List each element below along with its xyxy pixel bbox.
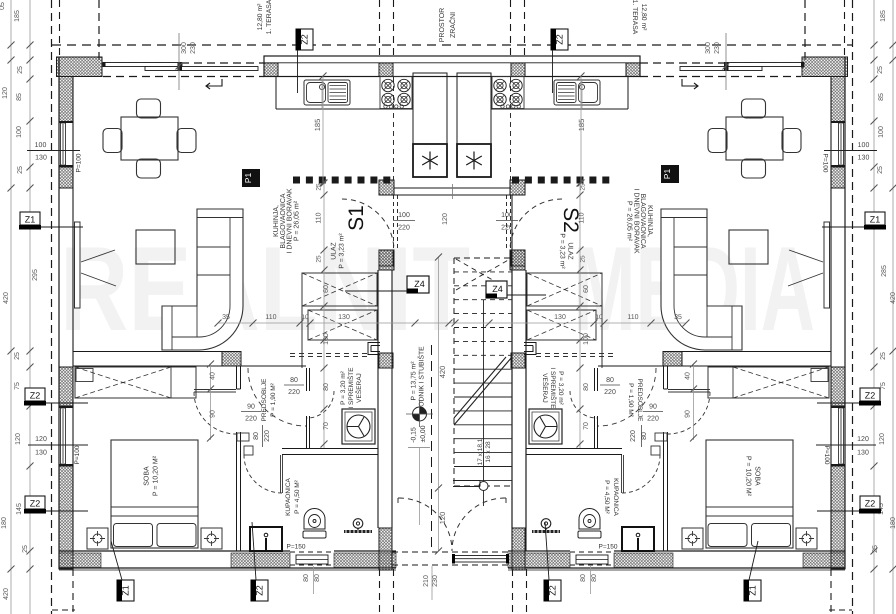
svg-text:10: 10: [595, 314, 603, 321]
svg-text:35: 35: [674, 314, 682, 321]
bathroom north wall S1: [282, 448, 378, 450]
svg-text:25: 25: [316, 255, 323, 263]
svg-text:220: 220: [630, 430, 637, 442]
laundry wall right: [511, 270, 513, 528]
svg-text:Z2: Z2: [30, 391, 41, 401]
svg-text:110: 110: [265, 314, 276, 321]
svg-text:100: 100: [501, 212, 513, 219]
dim 120 corridor: [438, 488, 440, 551]
label Z2 bottom right: [544, 580, 561, 601]
window left living P=100: [59, 121, 73, 123]
svg-text:P = 1,90 M²: P = 1,90 M²: [270, 382, 277, 416]
wall left plain section: [59, 367, 73, 406]
svg-text:Z1: Z1: [870, 215, 881, 225]
predsoblje wall S1: [306, 368, 308, 391]
stair steps: [454, 271, 512, 273]
toilet S1: [304, 509, 325, 529]
svg-text:420: 420: [438, 366, 447, 379]
svg-text:SOBA: SOBA: [144, 466, 151, 486]
entrance door swing S2: [452, 498, 505, 551]
bedroom top wall S1: [73, 351, 241, 353]
hall door swing S2: [598, 368, 656, 426]
wall pier: [264, 63, 278, 77]
svg-text:25: 25: [880, 352, 887, 360]
kitchen tall cabinet and fridge run left: [413, 73, 447, 177]
svg-text:90: 90: [247, 404, 255, 411]
kitchen tall cabinet and fridge run right: [457, 73, 491, 177]
svg-text:40: 40: [685, 372, 692, 380]
window left bedroom P=100: [59, 406, 73, 408]
label Z2 top right: [551, 29, 568, 50]
svg-text:220: 220: [647, 416, 659, 423]
svg-text:130: 130: [35, 450, 47, 457]
nightstand S2 a: [796, 528, 817, 549]
svg-text:KUPAONICA: KUPAONICA: [285, 477, 292, 515]
wall pier: [626, 63, 640, 77]
svg-text:120: 120: [442, 213, 449, 225]
svg-text:P1: P1: [662, 169, 672, 180]
svg-text:285: 285: [881, 265, 888, 277]
predsoblje wall S2: [594, 368, 596, 391]
svg-text:16 x 28: 16 x 28: [485, 441, 492, 463]
svg-text:110: 110: [316, 212, 323, 223]
svg-text:100: 100: [878, 126, 885, 138]
svg-text:120: 120: [857, 436, 869, 443]
svg-text:P=150: P=150: [599, 544, 618, 551]
label P1 S1: [242, 169, 260, 187]
svg-text:120: 120: [15, 433, 22, 445]
svg-text:35: 35: [222, 314, 230, 321]
svg-text:70: 70: [583, 422, 590, 430]
svg-text:ULAZ: ULAZ: [567, 242, 574, 259]
svg-text:100: 100: [858, 142, 870, 149]
window right bedroom P=100: [831, 406, 845, 408]
stove right: [492, 77, 524, 109]
bedroom door swing S2: [668, 392, 710, 434]
shower mixer S2: [541, 519, 551, 529]
svg-text:80: 80: [314, 574, 321, 582]
left dim chain lines: [10, 0, 12, 614]
label Z2 right edge lower: [860, 496, 880, 509]
svg-text:80: 80: [583, 383, 590, 391]
svg-text:100: 100: [583, 333, 590, 345]
stair walk line and start circle: [483, 300, 485, 481]
dim 185 left: [322, 76, 324, 183]
svg-text:420: 420: [3, 292, 10, 304]
exterior wall left: [58, 58, 60, 570]
stove left: [380, 77, 412, 109]
level marker S1: [413, 407, 427, 421]
sofa S1: [162, 209, 243, 350]
kitchen sink left: [304, 80, 350, 105]
bathroom wall S1: [236, 432, 238, 551]
wardrobe S1 upper: [302, 273, 377, 306]
svg-text:VEŠERAJ: VEŠERAJ: [355, 373, 363, 403]
svg-text:Z4: Z4: [414, 279, 425, 289]
wardrobe S2 lower: [527, 310, 596, 340]
svg-text:P=100: P=100: [822, 154, 829, 173]
laundry opening dashed S1: [301, 306, 303, 368]
svg-text:110: 110: [579, 212, 586, 223]
svg-text:70: 70: [323, 422, 330, 430]
entry pier wall right upper: [510, 180, 525, 195]
svg-text:210: 210: [423, 575, 430, 587]
bathroom north wall S2: [526, 448, 622, 450]
svg-text:P = 10,20 M²: P = 10,20 M²: [153, 455, 160, 496]
terrace sliding door right: [725, 63, 804, 67]
svg-text:Z2: Z2: [555, 34, 565, 45]
wardrobe S1 lower: [308, 310, 377, 340]
kitchen counter left: [275, 77, 277, 110]
svg-text:P = 4,50 M²: P = 4,50 M²: [294, 479, 301, 513]
svg-text:130: 130: [338, 314, 350, 321]
dim chain entry S2: [579, 183, 581, 448]
svg-text:25: 25: [22, 545, 29, 553]
svg-text:120: 120: [2, 87, 9, 99]
svg-text:220: 220: [288, 389, 300, 396]
svg-text:80: 80: [290, 377, 298, 384]
svg-text:130: 130: [554, 314, 566, 321]
dim 420 corridor: [438, 257, 440, 488]
svg-text:PROSTOR: PROSTOR: [439, 8, 446, 43]
svg-text:130: 130: [857, 450, 869, 457]
dim 80 80 window S1: [313, 566, 315, 594]
svg-text:180: 180: [890, 517, 896, 529]
svg-text:Z2: Z2: [255, 585, 265, 596]
bedroom door jamb S2: [663, 366, 665, 389]
svg-text:180: 180: [1, 517, 8, 529]
svg-text:230: 230: [190, 42, 197, 54]
svg-text:I SPREMIŠTE: I SPREMIŠTE: [549, 367, 557, 409]
svg-text:60: 60: [323, 285, 330, 293]
svg-text:-0,15: -0,15: [411, 427, 418, 443]
svg-text:P = 3,23 m²: P = 3,23 m²: [559, 233, 566, 269]
wall pier: [379, 63, 393, 77]
svg-text:1. TERASA: 1. TERASA: [266, 0, 273, 34]
svg-text:P1: P1: [243, 173, 253, 184]
exterior wall top-left corner: [57, 57, 103, 77]
svg-text:P = 1,90 M²: P = 1,90 M²: [627, 383, 634, 417]
right dim chain lines: [892, 0, 894, 614]
wardrobe bedroom S1: [75, 367, 196, 398]
svg-text:P = 26,05 m²: P = 26,05 m²: [293, 200, 300, 241]
svg-text:25: 25: [17, 66, 24, 74]
wall extension dashes above: [379, 0, 381, 57]
door frame detail S2: [524, 343, 536, 355]
svg-text:25: 25: [316, 183, 323, 191]
svg-text:420: 420: [890, 292, 896, 304]
wall edge dashed above left corner: [59, 0, 61, 56]
exterior wall top band: [264, 56, 640, 77]
roof overhang dashed line top: [52, 44, 852, 46]
label Z1 right edge: [865, 212, 885, 225]
sliding direction arrow left: [206, 79, 222, 89]
sliding direction arrow right: [682, 79, 698, 89]
svg-text:Z2: Z2: [548, 585, 558, 596]
svg-text:10: 10: [301, 314, 309, 321]
exterior wall top-right corner: [802, 57, 848, 77]
label Z1 bottom left: [117, 580, 134, 601]
label Z4 center: [507, 294, 546, 296]
terrace edge dashed x99: [98, 0, 100, 63]
terrace edge dashed x805: [804, 0, 806, 63]
svg-text:P = 3,20 m²: P = 3,20 m²: [557, 371, 564, 405]
svg-text:185: 185: [313, 119, 322, 132]
svg-text:P = 3,20 m²: P = 3,20 m²: [340, 370, 347, 404]
svg-text:05: 05: [0, 2, 6, 10]
nightstand S1 a: [87, 528, 108, 549]
label Z2 left edge upper: [25, 388, 45, 401]
railing dotted squares left: [293, 177, 300, 184]
svg-text:120: 120: [35, 436, 47, 443]
kitchen sink right: [554, 80, 600, 105]
dim 300/230 terrace door S2: [725, 33, 727, 90]
svg-text:17 x 18,1: 17 x 18,1: [477, 438, 484, 465]
svg-text:90: 90: [210, 410, 217, 418]
hall door swing S1: [248, 368, 306, 426]
svg-text:220: 220: [398, 225, 410, 232]
svg-text:PREDSOBLJE: PREDSOBLJE: [261, 378, 268, 422]
dim line 210/230 bottom: [431, 566, 433, 600]
dining table S2: [726, 117, 783, 160]
bedroom door swing S1: [194, 392, 236, 434]
terrace dashed lines right: [640, 62, 801, 64]
svg-text:80: 80: [606, 377, 614, 384]
svg-text:ZRAČNI: ZRAČNI: [448, 12, 457, 38]
svg-text:80: 80: [641, 432, 648, 440]
svg-text:40: 40: [210, 372, 217, 380]
entry pier wall left lower: [379, 250, 394, 270]
svg-text:25: 25: [580, 255, 587, 263]
svg-text:P = 13,75 m²: P = 13,75 m²: [411, 361, 418, 401]
dim 185 right: [580, 76, 582, 183]
boundary dashed vertical left: [51, 0, 53, 614]
svg-text:85: 85: [878, 93, 885, 101]
svg-text:220: 220: [604, 389, 616, 396]
center dashed line: [431, 345, 433, 550]
svg-text:300: 300: [705, 42, 712, 54]
entry pier wall left upper: [379, 180, 394, 195]
entry threshold: [394, 187, 511, 189]
svg-text:220: 220: [245, 416, 257, 423]
sofa S2: [661, 209, 742, 350]
svg-text:25: 25: [580, 183, 587, 191]
label Z4 left: [345, 290, 407, 292]
svg-text:100: 100: [35, 142, 47, 149]
stair landing edge: [453, 480, 480, 482]
svg-text:300: 300: [181, 42, 188, 54]
window right living P=100: [831, 121, 845, 123]
void cabinet dashes: [393, 77, 395, 180]
laundry door swing S1: [307, 391, 334, 418]
terrace sliding door left: [103, 63, 182, 67]
svg-text:25: 25: [17, 166, 24, 174]
stairwell bottom opening dashed: [392, 551, 512, 553]
svg-text:220: 220: [501, 225, 513, 232]
svg-text:25: 25: [14, 352, 21, 360]
fridge right: [457, 144, 491, 177]
svg-text:Z2: Z2: [865, 391, 876, 401]
label Z2 bottom left: [251, 580, 268, 601]
svg-text:120: 120: [879, 433, 886, 445]
terrace dashed lines left: [103, 62, 264, 64]
svg-text:VEŠERAJ: VEŠERAJ: [541, 373, 549, 403]
laundry opening dashed S2: [601, 306, 603, 368]
svg-text:P=150: P=150: [287, 544, 306, 551]
svg-text:P = 10,20 M²: P = 10,20 M²: [745, 456, 752, 497]
svg-text:185: 185: [14, 10, 21, 22]
svg-text:60: 60: [583, 285, 590, 293]
svg-text:Z1: Z1: [748, 585, 758, 596]
svg-text:±0,00: ±0,00: [420, 425, 427, 442]
bathroom wall S2: [663, 432, 665, 551]
svg-text:ULAZ: ULAZ: [331, 242, 338, 259]
svg-text:Z1: Z1: [121, 585, 131, 596]
railing dotted squares right: [512, 177, 519, 184]
washing machine S2: [529, 409, 562, 444]
entry door swing S2: [510, 199, 562, 251]
label Z1 left edge: [20, 212, 40, 225]
dining table S1: [121, 117, 178, 160]
label Z2 top left: [296, 29, 313, 50]
exterior wall bottom: [59, 550, 290, 552]
svg-text:I SPREMIŠTE: I SPREMIŠTE: [347, 367, 355, 409]
label Z1 bottom right: [744, 580, 761, 601]
kitchen counter right: [627, 77, 629, 110]
svg-text:80: 80: [323, 383, 330, 391]
svg-text:130: 130: [35, 155, 47, 162]
washbasin S2: [622, 527, 654, 551]
svg-text:Z1: Z1: [25, 215, 36, 225]
laundry wall right hatch: [511, 250, 525, 266]
svg-text:P = 26,05 m²: P = 26,05 m²: [626, 201, 633, 242]
stair top X brace: [456, 259, 510, 290]
entry pier wall right lower: [510, 250, 525, 270]
bathroom window 80/80 right: [570, 551, 614, 553]
label Z2 left edge lower: [25, 496, 45, 509]
svg-text:25: 25: [877, 166, 884, 174]
svg-text:P = 3,23 m²: P = 3,23 m²: [339, 233, 346, 269]
svg-text:85: 85: [16, 93, 23, 101]
svg-text:12,80 m²: 12,80 m²: [640, 4, 647, 32]
boundary dashed vertical right: [852, 0, 854, 614]
svg-text:PREDSOBLJE: PREDSOBLJE: [636, 379, 643, 423]
dim 300/230 terrace door S1: [178, 33, 180, 90]
svg-text:80: 80: [253, 432, 260, 440]
svg-text:90: 90: [685, 410, 692, 418]
washing machine S1: [342, 409, 375, 444]
bottom corner dashes: [52, 609, 75, 611]
svg-text:80: 80: [591, 574, 598, 582]
svg-text:P = 4,50 M²: P = 4,50 M²: [603, 480, 610, 514]
bed S2: [706, 440, 793, 548]
label P1 S2: [661, 165, 679, 183]
bathroom window 80/80 left: [290, 551, 334, 553]
svg-text:295: 295: [32, 269, 39, 281]
laundry door swing S2: [570, 391, 597, 418]
svg-text:S1: S1: [345, 205, 368, 231]
svg-text:Z2: Z2: [30, 499, 41, 509]
svg-text:100: 100: [323, 333, 330, 345]
corner pier left of stair opening: [379, 528, 392, 570]
entrance door swing S1: [399, 498, 452, 551]
bedroom door leaf S1: [194, 389, 236, 391]
svg-text:230: 230: [714, 42, 721, 54]
side table S1: [136, 230, 175, 264]
svg-text:12,80 m²: 12,80 m²: [257, 3, 264, 31]
dim 40/90 bedroom door S1: [210, 364, 212, 440]
wall extension dashes below: [72, 569, 74, 614]
svg-text:420: 420: [3, 588, 10, 600]
bathroom door S1: [280, 455, 282, 493]
bathroom door S2: [621, 455, 623, 493]
svg-text:110: 110: [627, 314, 638, 321]
svg-text:120: 120: [438, 512, 447, 525]
stair break line: [454, 357, 512, 425]
svg-text:P=100: P=100: [74, 445, 81, 464]
bedroom top wall S2: [663, 351, 831, 353]
shower mixer S1: [353, 519, 363, 529]
svg-text:145: 145: [16, 503, 23, 515]
wardrobe bedroom S2: [708, 367, 829, 398]
svg-text:185: 185: [880, 10, 887, 22]
toilet S2: [579, 509, 600, 529]
svg-text:25: 25: [877, 66, 884, 74]
svg-text:75: 75: [880, 382, 887, 390]
svg-text:P=100: P=100: [823, 446, 830, 465]
svg-text:25: 25: [872, 545, 879, 553]
TV S1: [75, 222, 81, 308]
svg-text:KUPAONICA: KUPAONICA: [612, 478, 619, 516]
svg-text:80: 80: [303, 574, 310, 582]
laundry wall left: [377, 270, 379, 528]
corner pier right of stair opening: [512, 528, 525, 570]
door frame detail S1: [368, 343, 380, 355]
svg-text:SOBA: SOBA: [754, 466, 761, 486]
nightstand S1 b: [201, 528, 222, 549]
bedroom door jamb S1: [236, 366, 238, 389]
svg-text:185: 185: [577, 119, 586, 132]
stairwell window 210/230: [453, 556, 508, 563]
entry door swing S1: [342, 199, 394, 251]
svg-text:Z4: Z4: [492, 284, 503, 294]
dim 80 80 window S2: [590, 566, 592, 594]
svg-text:90: 90: [649, 404, 657, 411]
exterior wall right: [844, 58, 846, 570]
svg-text:100: 100: [398, 212, 410, 219]
label Z2 right edge upper: [860, 388, 880, 401]
wall pier: [511, 63, 525, 77]
stair outline: [453, 258, 455, 486]
TV S2: [824, 222, 830, 308]
svg-text:80: 80: [580, 574, 587, 582]
svg-text:1. TERASA: 1. TERASA: [631, 0, 638, 35]
svg-text:75: 75: [14, 382, 21, 390]
svg-text:HODNIK I STUBIŠTE: HODNIK I STUBIŠTE: [418, 346, 426, 412]
entry door jamb dashes right: [506, 195, 508, 250]
wall edge dashed above right corner: [844, 0, 846, 56]
dim 40/90 bedroom door S2: [693, 364, 695, 440]
svg-text:Z2: Z2: [300, 34, 310, 45]
svg-text:220: 220: [264, 430, 271, 442]
svg-text:100: 100: [16, 126, 23, 138]
fridge left: [413, 144, 447, 177]
svg-text:230: 230: [432, 575, 439, 587]
bedroom door leaf S2: [668, 389, 710, 391]
bed S1: [111, 440, 198, 548]
nightstand S2 b: [682, 528, 703, 549]
laundry wall left hatch: [379, 250, 393, 266]
